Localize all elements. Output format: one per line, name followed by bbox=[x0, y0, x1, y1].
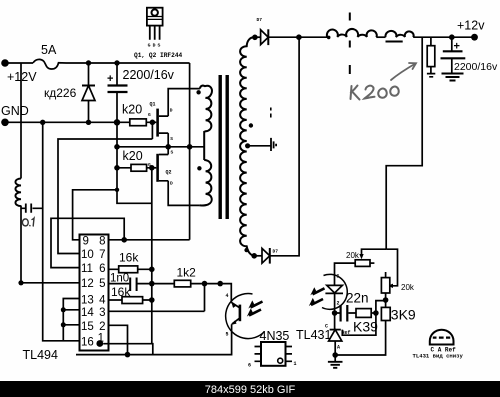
wire source row to center tap bbox=[117, 146, 204, 148]
svg-text:2200/16v: 2200/16v bbox=[123, 68, 175, 82]
node pin1 dot bbox=[96, 340, 103, 347]
node K39/Ref junction bbox=[373, 310, 379, 316]
wire top rail to corner bbox=[66, 62, 190, 64]
svg-text:A: A bbox=[337, 345, 340, 351]
svg-text:15: 15 bbox=[81, 321, 94, 333]
svg-text:+: + bbox=[454, 41, 460, 53]
node pin11 route / pin8 row junction bbox=[121, 237, 127, 243]
transformer primary winding top bbox=[200, 86, 212, 160]
IC TL494 body bbox=[80, 235, 109, 351]
arc LED circle bbox=[322, 274, 347, 309]
svg-text:10: 10 bbox=[81, 249, 94, 261]
svg-text:TL431 вид снизу: TL431 вид снизу bbox=[413, 353, 464, 360]
wire feedback sense drop bbox=[386, 37, 422, 249]
wire output rail to choke bbox=[299, 36, 327, 38]
node choke start dot bbox=[327, 36, 331, 40]
package TL431 bottom view bbox=[430, 330, 454, 345]
node Q2 gate junction bbox=[149, 165, 155, 171]
wire +12V feed vertical with inductor bbox=[20, 63, 22, 179]
wire pot1 right stub bbox=[370, 262, 374, 264]
node pin12 corner bbox=[18, 280, 23, 285]
wire pin4 row bbox=[109, 299, 152, 301]
node source row / +12 drop junction bbox=[187, 144, 193, 150]
svg-text:13: 13 bbox=[81, 295, 94, 307]
gnd bus vertical bbox=[117, 122, 152, 203]
node secondary phase dot upper bbox=[249, 123, 253, 127]
wire pot2 bottom bbox=[385, 293, 387, 307]
svg-text:Q1, Q2 IRF244: Q1, Q2 IRF244 bbox=[134, 52, 183, 59]
arrowhead wiper pot2 bbox=[388, 284, 393, 288]
wire pin1 out to bottom rail bbox=[103, 344, 153, 355]
wire K39 right bbox=[371, 312, 376, 314]
potentiometer 20k horizontal bbox=[355, 260, 370, 267]
wire k20 R2 row bbox=[117, 167, 152, 169]
node stray dot on 1k2 row bbox=[217, 281, 223, 287]
svg-text:TL494: TL494 bbox=[23, 348, 58, 362]
LED of optocoupler bbox=[325, 274, 343, 314]
wire pin3 row bbox=[109, 284, 205, 312]
regulator TL431 bbox=[325, 313, 351, 355]
svg-text:5: 5 bbox=[226, 332, 229, 338]
node secondary bottom terminal bbox=[251, 253, 257, 259]
node pin9 bus junction bbox=[115, 188, 119, 192]
svg-text:14: 14 bbox=[81, 307, 94, 319]
svg-text:+: + bbox=[107, 73, 113, 85]
wire pin9 to gnd bus bbox=[73, 190, 117, 240]
svg-text:6: 6 bbox=[248, 363, 251, 369]
wire secondary tap to ground bbox=[248, 145, 271, 147]
svg-text:k20: k20 bbox=[123, 149, 143, 163]
wire pin6 row with 16k bbox=[109, 268, 152, 270]
capacitor C1 2200/16v bbox=[107, 63, 128, 122]
node secondary phase dot lower bbox=[244, 248, 248, 252]
transformer secondary winding bbox=[240, 37, 255, 256]
svg-text:22n: 22n bbox=[346, 291, 369, 306]
svg-text:G: G bbox=[148, 112, 151, 118]
wire Q1 drain to primary top bbox=[168, 89, 200, 117]
svg-text:1n0: 1n0 bbox=[110, 273, 129, 285]
node GND/drop junction bbox=[40, 120, 45, 125]
svg-text:G: G bbox=[148, 43, 151, 49]
svg-text:D7: D7 bbox=[273, 249, 279, 255]
node pin14 bus dot bbox=[61, 307, 66, 312]
inductor output choke L1 bbox=[327, 29, 377, 37]
svg-text:G: G bbox=[148, 162, 151, 168]
node primary top phase dot bbox=[196, 90, 200, 94]
diode D7 bottom bbox=[254, 248, 278, 264]
optocoupler phototransistor bbox=[226, 293, 242, 338]
node junction top rail / capacitor bbox=[114, 60, 119, 65]
wire pin10 to Q1 gate drive bbox=[58, 139, 152, 254]
svg-text:D: D bbox=[170, 181, 173, 187]
svg-text:20k: 20k bbox=[401, 283, 415, 292]
svg-text:S: S bbox=[171, 150, 174, 156]
resistor k20 (R2) bbox=[131, 164, 147, 171]
arrows light into phototransistor bbox=[247, 300, 263, 316]
svg-text:12: 12 bbox=[81, 278, 94, 290]
svg-text:K39: K39 bbox=[353, 319, 378, 335]
node 1n0 bus junction bbox=[149, 281, 155, 287]
wire feedback split left with wiper arrow down bbox=[362, 249, 387, 255]
node pin3 riser junction bbox=[202, 281, 208, 287]
svg-text:4: 4 bbox=[99, 295, 106, 307]
handwritten к 200 bbox=[351, 86, 399, 100]
wire GND rail bbox=[5, 121, 152, 123]
resistor k20 (R1) bbox=[130, 119, 147, 126]
wire Q1 gate drive drop bbox=[151, 122, 153, 139]
svg-text:784x599 52kb GIF: 784x599 52kb GIF bbox=[205, 384, 296, 396]
diode кд226 bbox=[82, 63, 95, 122]
package TO-220 IRF244 bbox=[147, 8, 163, 49]
svg-text:2: 2 bbox=[337, 301, 340, 307]
svg-text:2: 2 bbox=[99, 321, 105, 333]
wire pot1 left to LED bbox=[335, 263, 356, 285]
node GND/diode junction bbox=[86, 120, 91, 125]
resistor 16k lower bbox=[122, 297, 143, 304]
wire bottom diode loop up right side bbox=[270, 37, 299, 256]
svg-text:5: 5 bbox=[99, 278, 105, 290]
wire pin15 stub bbox=[63, 324, 79, 326]
wire inductor to pin12 bbox=[20, 206, 22, 283]
svg-text:3: 3 bbox=[99, 307, 105, 319]
fuse 5A bbox=[33, 59, 66, 69]
wire output rail right bbox=[413, 36, 474, 38]
wire Q2 gate drop / right bus vertical bbox=[151, 168, 153, 344]
capacitor 0.1 decoupling bbox=[21, 204, 43, 213]
resistor 3K9 bbox=[381, 307, 390, 320]
node primary bottom phase dot bbox=[197, 166, 201, 170]
diode D7 top bbox=[255, 17, 268, 45]
svg-text:5A: 5A bbox=[41, 43, 57, 57]
node Q1 gate junction bbox=[150, 120, 156, 126]
svg-text:GND: GND bbox=[1, 104, 29, 118]
wire Q2 source up bbox=[167, 147, 169, 155]
svg-text:Q2: Q2 bbox=[166, 170, 172, 176]
pin numbers right column bbox=[98, 236, 107, 345]
arc phototransistor circle bbox=[226, 294, 265, 339]
transformer core bars bbox=[219, 75, 222, 219]
svg-text:8: 8 bbox=[99, 236, 105, 248]
capacitor 22n bbox=[335, 305, 356, 322]
wire bottom rail bbox=[76, 324, 232, 354]
svg-text:16k: 16k bbox=[119, 251, 139, 265]
potentiometer 20k vertical bbox=[381, 278, 389, 293]
node 16k lower bus junction bbox=[149, 297, 155, 303]
resistor K39 bbox=[356, 309, 371, 318]
svg-text:9: 9 bbox=[83, 236, 89, 248]
node pin15 bus dot bbox=[61, 322, 66, 327]
node source row / gnd bus junction bbox=[114, 144, 120, 150]
black info bar bbox=[0, 381, 500, 397]
wire +12V drop through tap row to pin8 row bbox=[189, 63, 191, 240]
transistor Q2 bbox=[148, 150, 174, 187]
arrowhead wiper pot1 bbox=[359, 254, 363, 259]
ground at output cap bbox=[442, 74, 464, 81]
node secondary top terminal bbox=[252, 35, 258, 41]
svg-text:+12v: +12v bbox=[457, 19, 485, 33]
wire pin8 row bbox=[109, 239, 190, 241]
ground sideways at secondary tap bbox=[271, 138, 276, 151]
svg-text:D: D bbox=[153, 43, 156, 49]
wire Q1 source down bbox=[167, 133, 169, 147]
svg-text:4N35: 4N35 bbox=[260, 329, 290, 343]
svg-text:D7: D7 bbox=[257, 17, 263, 23]
wire pin11 to pin8 route bbox=[51, 218, 124, 267]
node pin2 rail junction bbox=[125, 352, 131, 358]
wire feedback split right to pot2 wiper bbox=[386, 249, 397, 286]
node secondary center tap bbox=[245, 143, 250, 148]
svg-text:11: 11 bbox=[81, 263, 93, 275]
node k20 R2 left junction bbox=[114, 165, 120, 171]
wire D7 to output junction bbox=[268, 36, 299, 38]
node 16k bus junction bbox=[149, 267, 155, 273]
svg-text:7: 7 bbox=[99, 249, 105, 261]
pin numbers left column bbox=[81, 236, 94, 349]
node pot2/3K9 junction bbox=[383, 297, 389, 303]
node TL431 anode junction bbox=[332, 352, 338, 358]
node output cap junction bbox=[449, 34, 455, 40]
wire pin12 supply row bbox=[21, 282, 80, 284]
wire 3K9 bottom to anode bbox=[335, 321, 385, 356]
svg-text:1k2: 1k2 bbox=[177, 266, 197, 280]
ground at TL431 anode bbox=[334, 355, 336, 362]
svg-text:k20: k20 bbox=[122, 103, 142, 117]
node output rail junction bbox=[296, 34, 302, 40]
svg-text:D: D bbox=[170, 108, 173, 114]
svg-text:TL431: TL431 bbox=[296, 328, 331, 342]
svg-text:20k: 20k bbox=[346, 251, 360, 260]
handwritten arrow to к200 bbox=[391, 63, 416, 80]
resistor 1k2 bbox=[174, 280, 190, 287]
svg-text:1: 1 bbox=[294, 361, 297, 367]
package 4N35 DIP bbox=[248, 342, 297, 369]
svg-text:кд226: кд226 bbox=[44, 86, 77, 100]
resistor 16k upper bbox=[119, 266, 138, 273]
stray dashes above tap ground bbox=[270, 108, 272, 118]
node junction top rail / diode bbox=[86, 60, 91, 65]
wire K39 node up to 3K9 node bbox=[376, 301, 386, 313]
wire pin2 drop to rail bbox=[109, 325, 128, 354]
svg-text:16k: 16k bbox=[111, 285, 131, 299]
wire pins 13-15 bus bbox=[63, 299, 79, 341]
node Q1/Q2 source junction bbox=[165, 144, 171, 150]
wire top rail left segment bbox=[5, 62, 33, 64]
arrows light from LED bbox=[309, 287, 325, 306]
label 0.1 handwritten bbox=[22, 218, 34, 226]
wire between chokes bbox=[376, 36, 385, 38]
wire GND drop to pin16 bbox=[43, 122, 80, 340]
svg-text:S: S bbox=[158, 43, 161, 49]
svg-text:16: 16 bbox=[81, 337, 94, 349]
svg-text:2200/16v: 2200/16v bbox=[454, 61, 498, 73]
wire Ref to K39 node bbox=[342, 313, 376, 335]
wire 1k2 row to optocoupler bbox=[152, 284, 232, 303]
node GND terminal bbox=[1, 119, 9, 127]
transistor Q1 bbox=[148, 102, 173, 142]
svg-text:Q1: Q1 bbox=[150, 102, 156, 108]
svg-text:S: S bbox=[170, 136, 173, 142]
dashed line at choke bbox=[349, 13, 351, 75]
inductor input filter bbox=[15, 179, 21, 207]
resistor к200 bleed bbox=[427, 37, 435, 77]
svg-text:6: 6 bbox=[99, 263, 105, 275]
node +12V input terminal bbox=[1, 59, 9, 67]
node +12v output terminal bbox=[471, 34, 478, 41]
transformer primary winding bottom bbox=[200, 160, 212, 205]
svg-text:3K9: 3K9 bbox=[391, 307, 416, 323]
node GND/cap/bus junction bbox=[114, 119, 120, 125]
node LED cathode junction bbox=[332, 310, 338, 316]
svg-text:4: 4 bbox=[226, 293, 229, 299]
wire Q2 drain to primary bottom bbox=[168, 181, 199, 206]
wire pot2 top stub bbox=[385, 272, 387, 278]
capacitor 1n0 bbox=[109, 278, 152, 292]
inductor output choke L2 with core bar bbox=[385, 31, 413, 42]
wire pin14 stub bbox=[63, 309, 79, 311]
capacitor C2 2200/16v output bbox=[441, 37, 466, 73]
svg-text:+12V: +12V bbox=[7, 70, 37, 84]
